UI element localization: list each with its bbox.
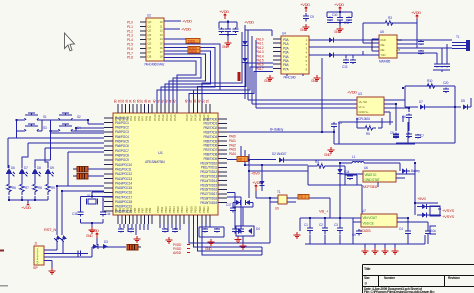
svg-text:PB19/TXD19: PB19/TXD19: [200, 201, 217, 205]
svg-text:+5V0: +5V0: [417, 196, 427, 201]
wire led bus bottom: [9, 196, 48, 204]
svg-text:GND V+: GND V+: [359, 110, 370, 114]
svg-text:C2: C2: [319, 223, 323, 227]
svg-text:MAX485: MAX485: [379, 60, 390, 64]
connector J1 wires: [44, 250, 92, 268]
button S4: [55, 124, 76, 131]
diode D8 pair: [236, 200, 250, 205]
ic U7 inner labels: [363, 216, 378, 226]
led DL1: [6, 165, 15, 177]
svg-text:PB14/TXD14: PB14/TXD14: [200, 179, 217, 183]
svg-text:R6: R6: [12, 186, 16, 190]
capacitor C1: [219, 29, 225, 32]
wire battery sense: [227, 131, 334, 133]
svg-text:Title: Title: [364, 267, 371, 271]
wire regulator gnd bus: [353, 235, 428, 248]
svg-text:PA23: PA23: [229, 148, 236, 152]
capacitor C6: [337, 18, 343, 21]
mcu U1 left inner labels: [115, 116, 132, 213]
svg-text:PB9/TXD9: PB9/TXD9: [204, 157, 218, 161]
diode D18: [420, 105, 425, 110]
svg-text:+VDD: +VDD: [347, 90, 357, 95]
opto U8 wires: [256, 191, 330, 202]
cap cluster 3 bottom wire: [327, 23, 352, 27]
svg-text:+VDD: +VDD: [300, 2, 310, 7]
ic U4 bottom pins: [287, 58, 322, 76]
ic U2 body: [146, 18, 164, 61]
svg-text:VD_1: VD_1: [238, 158, 246, 162]
capacitor C22: [331, 124, 337, 127]
net PVDD labels: [173, 243, 190, 255]
svg-text:R3: R3: [388, 16, 392, 20]
svg-text:P1.1: P1.1: [127, 25, 133, 29]
resistor R10: [7, 181, 11, 195]
capacitor C40: [343, 60, 349, 63]
svg-text:PA18/PGC18: PA18/PGC18: [115, 200, 132, 204]
capacitor C30: [162, 229, 168, 232]
mcu U1 right inner labels: [200, 117, 217, 205]
capacitor C16: [444, 64, 450, 67]
led DL2: [19, 165, 28, 177]
crystal X1: [88, 199, 96, 204]
svg-text:U3: U3: [358, 92, 362, 96]
svg-text:C4: C4: [399, 227, 403, 231]
capacitor C24: [322, 228, 328, 231]
ground U1 bottom b: [166, 237, 173, 243]
mcu right pin net labels: [229, 135, 236, 157]
svg-text:L1: L1: [352, 155, 356, 159]
capacitor C4: [303, 16, 309, 19]
svg-text:MCP73811: MCP73811: [363, 185, 378, 189]
svg-text:U5: U5: [380, 30, 384, 34]
resistor R13: [46, 181, 50, 195]
wire U1 bottom left pins down: [120, 224, 148, 235]
button S3: [21, 124, 42, 131]
svg-text:S3: S3: [43, 126, 47, 130]
inductor L1: [352, 162, 364, 164]
opto U8 body: [278, 195, 287, 204]
svg-text:VI- G: VI- G: [359, 105, 366, 109]
capacitor C27: [425, 231, 431, 234]
capacitor C15: [439, 64, 445, 67]
ground J1: [49, 268, 56, 274]
svg-text:PB3/TXD3: PB3/TXD3: [204, 131, 218, 135]
svg-text:RST_N: RST_N: [44, 227, 56, 232]
svg-text:Number: Number: [384, 276, 396, 280]
wire button row2: [17, 128, 105, 138]
diode D2: [243, 58, 248, 63]
capacitor C18: [406, 115, 412, 118]
svg-text:74HC14D: 74HC14D: [283, 76, 296, 80]
mcu U1 top pins: [118, 104, 210, 113]
svg-text:PA20/PGC20: PA20/PGC20: [115, 209, 132, 213]
wire crystal loop: [81, 192, 114, 227]
svg-text:C10: C10: [332, 13, 338, 17]
capacitor C33: [214, 229, 220, 232]
ic U7 body: [361, 214, 397, 227]
diode D15: [93, 244, 98, 249]
svg-text:Battery: Battery: [411, 169, 420, 173]
capacitor C14: [434, 64, 440, 67]
svg-text:PA21: PA21: [229, 139, 236, 143]
svg-text:+VDD: +VDD: [334, 2, 344, 7]
sheet border bottom stub: [0, 285, 8, 287]
wire crystal left nets: [57, 152, 104, 191]
svg-text:10u: 10u: [431, 229, 436, 233]
svg-text:39: 39: [148, 99, 152, 103]
mcu U1 top inner labels: [114, 114, 210, 121]
svg-text:PA20: PA20: [229, 135, 236, 139]
svg-text:VIN VOUT: VIN VOUT: [363, 216, 378, 220]
diode D16: [329, 38, 334, 43]
capacitor C32: [202, 229, 208, 232]
capacitor C41: [347, 176, 353, 179]
wire to rpack3: [116, 246, 126, 248]
button S2: [55, 113, 76, 120]
wire rst mid: [92, 238, 116, 247]
resistor R4: [314, 164, 328, 168]
diode D6 1N4007: [279, 158, 284, 163]
svg-text:R10: R10: [427, 79, 433, 83]
svg-text:PA12/PGC12: PA12/PGC12: [115, 172, 132, 176]
svg-text:R4: R4: [315, 160, 319, 164]
wire bundle U2 to U1 top: [157, 44, 220, 104]
svg-text:PA3/PGC3: PA3/PGC3: [115, 130, 129, 134]
svg-text:PB5/TXD5: PB5/TXD5: [204, 139, 218, 143]
diode D19: [338, 169, 343, 174]
svg-text:P1.6: P1.6: [127, 47, 133, 51]
ground cap cluster 1: [225, 40, 232, 46]
svg-text:PA2/PGC2: PA2/PGC2: [115, 126, 129, 130]
wire caps bus bottom: [305, 218, 353, 244]
svg-text:P1.5: P1.5: [127, 43, 133, 47]
port RXD: [188, 47, 200, 50]
ground cap cluster 3: [337, 26, 344, 32]
mcu U1 right pins: [218, 119, 227, 203]
wire bundle HC14 to U1 top: [189, 32, 273, 104]
svg-text:R9: R9: [51, 186, 55, 190]
svg-text:U4: U4: [282, 32, 286, 36]
svg-text:R7: R7: [25, 186, 29, 190]
ground bus left: [294, 232, 301, 238]
capacitor C44: [415, 135, 421, 138]
diode D13: [54, 235, 61, 242]
ic U7 wires: [353, 218, 408, 222]
svg-text:+VDD: +VDD: [219, 9, 229, 14]
wire rst verticals: [57, 186, 63, 254]
ic U4 body: [281, 36, 309, 74]
svg-text:PB18/TXD18: PB18/TXD18: [200, 197, 217, 201]
svg-text:GND: GND: [222, 45, 229, 49]
power port +VDD at U2 pin a: [164, 20, 181, 22]
ic U5 inner labels: [381, 38, 403, 57]
power port +VDD at U2 pin b: [164, 28, 180, 30]
diode D12: [422, 213, 427, 218]
svg-text:PB1/TXD1: PB1/TXD1: [204, 122, 218, 126]
port VD_1: [237, 157, 248, 162]
svg-text:C9: C9: [352, 233, 356, 237]
svg-text:Revision: Revision: [448, 276, 460, 280]
ic U5 body: [379, 35, 397, 58]
svg-text:D9: D9: [50, 166, 54, 170]
wire left verticals to leds: [8, 131, 51, 168]
ic U2 inner labels: [148, 20, 164, 58]
resistor pack RP2: [77, 174, 88, 180]
button S1: [21, 113, 42, 120]
svg-text:GND: GND: [264, 79, 271, 83]
svg-text:VBAT IO: VBAT IO: [365, 173, 377, 177]
input rect wires: [245, 25, 272, 99]
ground diode D9: [240, 243, 247, 249]
svg-text:C20: C20: [443, 81, 449, 85]
svg-text:DE: DE: [381, 48, 385, 52]
svg-text:U9: U9: [275, 207, 279, 211]
ground reg c: [382, 248, 389, 254]
svg-text:PA5/PGC5: PA5/PGC5: [115, 140, 129, 144]
wire left long nets: [8, 133, 104, 152]
svg-text:PA17/PGC17: PA17/PGC17: [115, 195, 132, 199]
svg-text:51: 51: [206, 99, 210, 103]
svg-text:D5: D5: [461, 99, 465, 103]
svg-text:C16: C16: [105, 212, 111, 216]
diode D3 right: [463, 105, 468, 110]
ground reg d: [392, 248, 399, 254]
capacitor C38: [78, 251, 81, 257]
svg-text:HCPL0601: HCPL0601: [356, 117, 370, 121]
svg-text:+VSYS: +VSYS: [442, 208, 455, 213]
port TXD: [186, 39, 200, 44]
svg-text:GND: GND: [300, 28, 307, 32]
svg-text:P1.8: P1.8: [127, 56, 133, 60]
svg-text:PA13/PGC13: PA13/PGC13: [115, 177, 132, 181]
connector J1 body: [34, 246, 44, 265]
svg-text:AVDD: AVDD: [173, 251, 182, 255]
svg-text:PA15/PGC15: PA15/PGC15: [115, 186, 132, 190]
ground battery cap: [328, 147, 335, 153]
svg-text:GND: GND: [311, 79, 318, 83]
wire buttons to U1: [42, 120, 104, 131]
wire U4 gnd drop: [321, 74, 323, 132]
svg-text:T1: T1: [456, 35, 460, 39]
resistor R3 feedback: [382, 21, 396, 25]
ic U2 left pin labels: [127, 21, 133, 60]
zener D7: [260, 181, 265, 186]
diode D17: [329, 53, 334, 58]
svg-text:C17: C17: [226, 203, 232, 207]
ic U3 inner labels: [359, 100, 370, 114]
ic U3 body: [357, 97, 384, 115]
ground U4 left: [267, 75, 274, 81]
svg-text:+VDD: +VDD: [411, 10, 421, 15]
svg-text:TXD0: TXD0: [188, 39, 196, 43]
diode D1: [243, 41, 248, 46]
wires U4 right to U5: [309, 40, 379, 55]
svg-text:B+ Battery: B+ Battery: [270, 128, 284, 132]
svg-text:D2 1N4007: D2 1N4007: [272, 152, 287, 156]
mcu U1 top pin numbers: [114, 99, 210, 103]
svg-text:PB7/TXD7: PB7/TXD7: [204, 148, 218, 152]
capacitor C3: [233, 29, 239, 32]
svg-text:TD_2: TD_2: [299, 195, 306, 199]
capacitor C2: [225, 29, 231, 32]
capacitor C28: [118, 229, 124, 232]
ic U6 body: [363, 171, 396, 182]
wires U5 left pins: [363, 39, 379, 55]
svg-text:PA8/PGC8: PA8/PGC8: [115, 154, 129, 158]
svg-text:P1.3: P1.3: [127, 34, 133, 38]
resistor R11: [20, 181, 24, 195]
ic U4 left pins: [273, 39, 281, 68]
svg-text:A B: A B: [396, 48, 400, 52]
cap cluster 1 bottom wire: [219, 35, 237, 41]
svg-text:PA0/PGC0: PA0/PGC0: [115, 116, 129, 120]
svg-text:PB8/TXD8: PB8/TXD8: [204, 153, 218, 157]
svg-text:C14: C14: [344, 170, 350, 174]
svg-text:R8: R8: [38, 186, 42, 190]
sheet border left stub: [0, 250, 4, 252]
svg-text:D8: D8: [37, 166, 41, 170]
svg-text:PA10/PGC10: PA10/PGC10: [115, 163, 132, 167]
svg-text:S1: S1: [43, 115, 47, 119]
mouse cursor: [65, 33, 75, 51]
svg-text:J1: J1: [34, 242, 37, 246]
svg-text:P1.0: P1.0: [127, 21, 133, 25]
connector J2: [466, 40, 470, 51]
svg-text:+VDD: +VDD: [244, 20, 254, 25]
svg-text:+VSYS: +VSYS: [442, 214, 455, 219]
wire mid vertical: [261, 165, 263, 176]
svg-text:PB4/TXD4: PB4/TXD4: [204, 135, 218, 139]
svg-text:C1: C1: [304, 223, 308, 227]
ground reg b: [372, 248, 379, 254]
capacitor C20: [393, 134, 399, 137]
svg-text:PA6/PGC6: PA6/PGC6: [115, 144, 129, 148]
svg-text:PA1/PGC1: PA1/PGC1: [115, 121, 129, 125]
svg-text:+VDD: +VDD: [181, 27, 191, 32]
wire U1 bottom mid pins: [160, 224, 180, 232]
svg-text:PA14/PGC14: PA14/PGC14: [115, 181, 132, 185]
svg-text:C13: C13: [342, 65, 348, 69]
capacitor C21: [406, 134, 412, 137]
diode D14: [60, 235, 67, 242]
svg-text:PA4/PGC4: PA4/PGC4: [115, 135, 129, 139]
svg-text:P1.2: P1.2: [127, 29, 133, 33]
cap cluster 1 wires: [219, 20, 237, 28]
wire bundle U1 right down: [241, 146, 249, 171]
wire hook right: [430, 226, 436, 234]
svg-text:PB13/TXD13: PB13/TXD13: [200, 175, 217, 179]
divider box wires: [245, 165, 362, 218]
svg-text:PA15: PA15: [173, 114, 177, 121]
wire U3 top right area: [396, 86, 455, 143]
diode D11: [422, 204, 427, 209]
mcu U1 left pins: [104, 118, 113, 211]
mcu U1 body: [113, 113, 218, 215]
svg-text:C9: C9: [310, 15, 314, 19]
svg-text:D3: D3: [104, 240, 108, 244]
svg-text:C7: C7: [420, 134, 424, 138]
svg-text:PA24: PA24: [229, 152, 236, 156]
svg-text:+VDD: +VDD: [21, 205, 31, 210]
svg-text:PB11/TXD11: PB11/TXD11: [201, 166, 218, 170]
resistor pack RP1: [77, 167, 88, 173]
capacitor C29: [128, 229, 134, 232]
diode D10 battery: [402, 169, 407, 174]
wire button bus left: [17, 120, 56, 131]
ground crystal: [89, 227, 96, 233]
svg-text:U6: U6: [364, 166, 368, 170]
svg-text:PB9: PB9: [148, 207, 152, 213]
ic U3 right wires: [384, 100, 409, 131]
mcu U1 bottom inner labels: [114, 206, 210, 213]
wire U1 bottom nested right: [189, 198, 270, 255]
capacitor C31: [172, 229, 178, 232]
svg-text:Q8: Q8: [148, 54, 152, 58]
svg-text:D6: D6: [11, 166, 15, 170]
capacitor C7: [346, 18, 352, 21]
wires U5 right to connector: [397, 40, 452, 53]
svg-text:U7: U7: [362, 209, 366, 213]
capacitor C12: [418, 42, 424, 45]
svg-text:PB0/TXD0: PB0/TXD0: [204, 117, 218, 121]
ic U4 left pin labels: [256, 38, 264, 71]
ic U4 inner labels: [283, 38, 308, 71]
port TD_2: [298, 195, 309, 200]
fuse F1 red bar: [238, 72, 241, 81]
svg-text:AT91SAM7S64: AT91SAM7S64: [145, 160, 165, 164]
ground cap C4: [303, 24, 310, 30]
ground caps pair: [235, 237, 242, 243]
svg-text:GND: GND: [86, 234, 93, 238]
svg-text:P1.4: P1.4: [127, 38, 133, 42]
ic U6 wires: [378, 174, 415, 187]
svg-text:PB12/TXD12: PB12/TXD12: [200, 170, 217, 174]
capacitor C35: [238, 229, 244, 232]
capacitor C36: [78, 212, 84, 215]
svg-text:T1: T1: [277, 190, 281, 194]
wire R5 box long: [334, 116, 415, 144]
svg-text:P1.7: P1.7: [127, 51, 133, 55]
mcu U1 bottom pins: [118, 215, 210, 224]
ground reg a: [362, 248, 369, 254]
resistor pack RP3: [127, 245, 138, 251]
capacitor C26: [405, 231, 411, 234]
svg-text:PA7/PGC7: PA7/PGC7: [115, 149, 129, 153]
svg-text:PB17/TXD17: PB17/TXD17: [200, 192, 217, 196]
svg-text:GND: GND: [334, 30, 341, 34]
wires connector stubs: [437, 44, 447, 63]
svg-text:D7: D7: [419, 100, 423, 104]
svg-text:U2: U2: [147, 14, 151, 18]
cap cluster 3 wires: [327, 11, 352, 17]
capacitor C13: [418, 51, 424, 54]
wire left feed to charger: [352, 218, 354, 244]
ic U2 left pins: [140, 22, 146, 57]
transistor Q1: [103, 244, 108, 249]
diode D9 dual box: [236, 226, 254, 236]
capacitor C37: [100, 212, 106, 215]
svg-text:VSS CE: VSS CE: [363, 222, 375, 226]
resistor R12: [33, 181, 37, 195]
wire caps bottom: [433, 70, 450, 72]
led DL4: [45, 165, 54, 177]
wire VD net: [227, 159, 276, 161]
svg-text:PA9: PA9: [148, 116, 152, 121]
svg-text:PB16: PB16: [180, 206, 184, 213]
svg-text:PA11/PGC11: PA11/PGC11: [115, 168, 132, 172]
feedback loop wires U5: [363, 23, 417, 46]
svg-text:PA19/PGC19: PA19/PGC19: [115, 205, 132, 209]
